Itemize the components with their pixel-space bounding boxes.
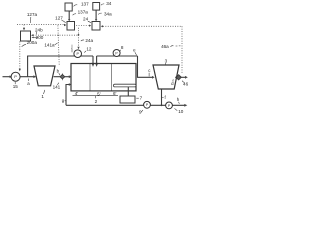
label f [162, 95, 166, 100]
label 137 [74, 2, 89, 7]
valve 46 [176, 75, 181, 80]
label 34 [101, 1, 112, 6]
wire 34a from box 34 to controller 24 [95, 10, 97, 21]
signal line 200a (dashed) down to pump 15 [19, 42, 21, 72]
label 127a [27, 12, 38, 23]
signal line 24a (dashed) down to pump 12 [77, 28, 79, 50]
pump 9 [144, 101, 151, 108]
label 24 [83, 17, 91, 23]
label 46a [161, 44, 180, 49]
svg-text:46a: 46a [161, 44, 169, 49]
wire pipe through pump 8 to right corner [97, 55, 138, 57]
label j [71, 44, 73, 53]
label 137a [73, 10, 89, 16]
node junction of drain and bottom line [161, 104, 163, 106]
pump 12 [74, 50, 82, 58]
svg-text:7: 7 [140, 96, 143, 101]
wire riser from junction to main steam pipe [27, 56, 29, 77]
node junction on 24b line [78, 34, 80, 36]
svg-text:8: 8 [121, 45, 124, 50]
wire stub from heater bar to box 7 [127, 87, 129, 96]
svg-text:P: P [14, 74, 17, 79]
svg-text:5': 5' [97, 92, 101, 97]
label 141 [53, 83, 61, 90]
divider section 5/6 [111, 64, 113, 91]
label b [57, 68, 60, 75]
label 200 with leader arrow [31, 35, 43, 40]
box 7 [120, 96, 135, 103]
label 1 [41, 90, 44, 99]
wire valve 141 outlet arrow into exchanger 2 [65, 75, 72, 78]
svg-text:6': 6' [113, 91, 117, 96]
wire bottom condensate line through pumps 9 and 10 [66, 104, 187, 107]
label 24b [35, 27, 43, 34]
svg-text:24a: 24a [85, 38, 93, 43]
divider section 4/5 [89, 64, 91, 91]
label 200a [22, 40, 38, 47]
wire drop arrow from pump 12 line into exchanger section [91, 56, 94, 67]
svg-text:15: 15 [13, 84, 19, 89]
signal line 141a (dashed) down to valve 141 [58, 25, 59, 64]
label g [62, 98, 66, 103]
svg-text:24b: 24b [35, 27, 43, 32]
pump 15 [11, 72, 20, 81]
label 46 [182, 81, 188, 87]
svg-text:3: 3 [165, 58, 168, 63]
wire drop arrow from pump 8 line into exchanger section [95, 56, 98, 67]
node crossing of 141a and 24b [58, 35, 59, 36]
label 9 [139, 110, 143, 115]
label d [171, 79, 174, 86]
label 10 [175, 108, 184, 114]
svg-text:9: 9 [139, 110, 142, 115]
wire vessel 3 drain f [161, 89, 163, 105]
svg-text:141: 141 [53, 84, 61, 89]
svg-text:127a: 127a [27, 12, 38, 17]
box 137 [65, 3, 72, 11]
wire pump 15 outlet into vessel 1 (segment a) [20, 75, 36, 78]
label c [148, 68, 151, 77]
svg-text:127: 127 [55, 16, 63, 21]
signal branch arrow into box 200 top [23, 25, 25, 31]
wire return riser g from bottom line into exchanger 2 [66, 83, 71, 105]
svg-text:137a: 137a [78, 10, 89, 15]
box 200 [21, 31, 31, 41]
svg-text:200a: 200a [27, 40, 38, 45]
svg-text:34: 34 [106, 1, 112, 6]
svg-text:2: 2 [95, 99, 98, 104]
svg-text:24: 24 [83, 17, 89, 22]
label 15 [13, 82, 19, 89]
label 7 with leader [136, 96, 142, 101]
svg-text:j: j [71, 44, 73, 49]
vessel 3 (flash vessel) [153, 65, 179, 89]
signal line from controller 127 to controller 24 (dashed) [76, 25, 91, 27]
svg-text:4': 4' [75, 91, 79, 96]
signal line 127a (dashed) into controller 127 [17, 24, 66, 26]
pump 10 [166, 102, 173, 109]
wire inlet to pump 15 [3, 75, 13, 78]
pump 8 [113, 50, 120, 57]
box 34 [93, 3, 100, 11]
svg-text:141a: 141a [44, 42, 55, 47]
bracket for label 2 [73, 96, 119, 99]
wire main steam pipe through pump 12 [27, 55, 93, 57]
svg-text:34a: 34a [104, 11, 112, 16]
label e [133, 47, 136, 55]
label 34a [98, 11, 112, 16]
heat exchanger 2 body [71, 64, 136, 91]
svg-text:137: 137 [81, 2, 89, 7]
wire vessel 1 outlet b to valve 141 [54, 76, 60, 78]
valve 141 [60, 73, 65, 80]
controller 24 [92, 22, 100, 31]
wire drop to vessel 3 (segment c) [138, 56, 155, 79]
controller 127 [67, 22, 75, 31]
svg-text:10: 10 [178, 109, 184, 114]
label 141a [44, 42, 57, 47]
label 127 [55, 16, 66, 23]
svg-text:1: 1 [41, 94, 44, 99]
wire valve 46 outlet arrow [181, 76, 188, 79]
vessel 1 (flash vessel) [34, 66, 55, 86]
svg-text:12: 12 [86, 46, 92, 51]
signal line 46a (dashed) from controller 24 to valve 46 [101, 25, 182, 73]
signal line 24b (dashed) into box 200 [31, 34, 79, 36]
label 12 [84, 46, 92, 52]
label 8 [119, 45, 124, 52]
wire vessel 3 outlet d to valve 46 [175, 76, 176, 78]
label 24a [81, 38, 94, 43]
heater bar in section 6 [114, 84, 137, 87]
label 3 [165, 58, 168, 65]
label a [27, 79, 30, 86]
label h [177, 97, 180, 104]
wire 137a from box 137 to controller 127 [68, 11, 70, 21]
